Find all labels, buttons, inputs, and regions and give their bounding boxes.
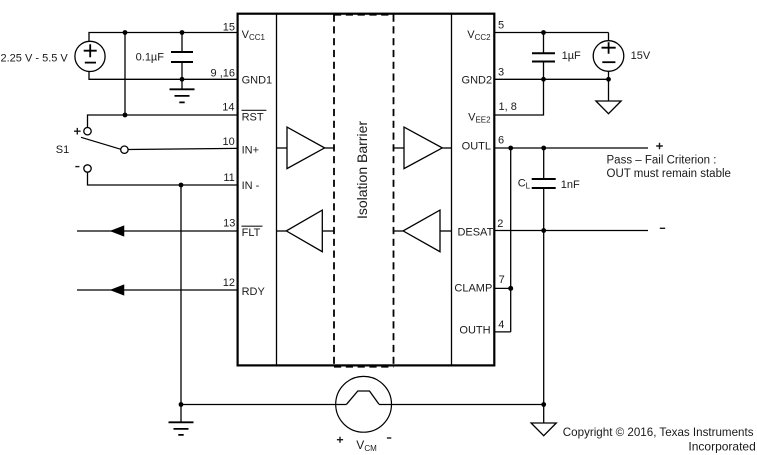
arrow RDY output [112,285,124,294]
label DESAT minus [660,227,665,229]
svg-text:Incorporated: Incorporated [688,439,755,453]
svg-text:3: 3 [498,67,504,79]
capacitor CL plates [532,179,556,188]
wire buffer U1D input [440,230,452,232]
label VCM minus [387,437,391,439]
buffer U1A input-side top triangle [287,127,325,169]
capacitor C2 1uF stems [543,33,545,80]
ground symbol bottom left [180,405,182,423]
ground triangle bottom right [531,405,556,436]
svg-text:OUTH: OUTH [459,325,490,337]
wire RST drop from VCC1 [124,33,126,116]
svg-text:CLAMP: CLAMP [454,283,492,295]
node bottom-left rail junction [179,402,184,407]
bottom rail wire right of VCM [379,404,544,406]
switch S1 bottom contact circle [84,165,91,172]
node GND2-15V junction [606,77,611,82]
svg-text:Copyright © 2016, Texas Instru: Copyright © 2016, Texas Instruments [563,426,754,439]
node CLAMP junction [508,286,513,291]
wire VCC1 pin 15 [89,33,237,43]
wire RST pin 14 [88,115,238,128]
svg-text:5: 5 [498,20,504,32]
wire buffer U1C output [277,230,287,232]
arrow FLT output [112,226,124,235]
svg-text:RST: RST [242,111,264,123]
wire buffer U1A input [277,147,288,149]
wire GND1 pin 9,16 [89,71,237,79]
svg-text:2.25 V - 5.5 V: 2.25 V - 5.5 V [1,53,69,65]
wire buffer U1C input [322,230,334,232]
svg-text:GND2: GND2 [462,75,493,87]
svg-text:VEE2: VEE2 [468,111,491,124]
wire buffer U1A output [325,147,334,149]
isolation barrier right dashed line [393,15,395,365]
node OUTL riser junction [508,146,513,151]
wire IN- drop to bottom rail [180,185,182,405]
node RST junction [123,113,128,118]
svg-text:OUT must remain stable: OUT must remain stable [607,168,731,180]
capacitor CL stems riser [543,148,545,405]
node VCC1-C1 junction [180,30,185,35]
node DESAT-CL junction [541,228,546,233]
node IN- junction [179,183,184,188]
source V1 plus sign [84,44,97,57]
node VCC1-RST junction [123,30,128,35]
source VCM circle [336,376,392,432]
wire OUTH pin 4 [495,331,511,333]
svg-text:FLT: FLT [242,227,261,239]
svg-text:Pass – Fail Criterion :: Pass – Fail Criterion : [607,155,717,167]
isolation barrier dashed bottom edge [334,366,394,368]
svg-text:VCM: VCM [356,438,377,453]
source V2 15V circle [593,41,624,72]
wire IN+ pin 10 [128,148,237,149]
svg-text:VCC2: VCC2 [467,29,491,42]
svg-text:2: 2 [497,218,503,230]
source VCM trapezoid waveform [347,391,380,404]
switch S1 top contact circle [84,128,91,135]
IC right inner pin-column line [451,14,453,366]
source V1 2.25-5.5V circle [75,41,105,71]
wire buffer U1B input [394,147,405,149]
svg-text:RDY: RDY [242,286,266,298]
svg-text:10: 10 [223,136,235,148]
ground GND1 symbol [181,79,183,89]
svg-text:S1: S1 [56,144,69,156]
svg-text:VCC1: VCC1 [242,29,266,42]
source V2 top stem [608,33,610,41]
svg-text:0.1µF: 0.1µF [136,51,165,63]
svg-text:1nF: 1nF [561,179,580,191]
capacitor C1 0.1uF plates [171,52,193,62]
svg-text:1µF: 1µF [562,50,581,62]
node VCC2-C2 junction [541,30,546,35]
svg-text:6: 6 [498,135,504,147]
wire FLT pin 13 [77,230,237,232]
wire buffer U1B output [442,147,451,149]
wire IN- pin 11 [88,172,238,185]
source V2 plus sign [602,42,616,54]
buffer U1D reverse lower-right triangle [403,210,440,252]
switch S1 arm [81,137,121,149]
svg-text:DESAT: DESAT [457,227,493,239]
svg-text:11: 11 [223,172,234,184]
svg-text:9 ,16: 9 ,16 [211,67,235,79]
bottom rail wire [181,404,347,406]
wire CLAMP pin 7 [495,287,511,289]
wire OUTL pin 6 [495,147,649,149]
node OUTL-CL junction [541,146,546,151]
svg-text:GND1: GND1 [242,75,273,87]
svg-text:CL: CL [518,177,531,190]
isolation barrier dashed top edge [334,14,394,16]
capacitor C1 0.1uF stems [181,33,183,80]
capacitor C2 1uF plates [532,53,555,61]
svg-text:OUTL: OUTL [462,141,491,153]
svg-text:IN -: IN - [242,180,260,192]
svg-text:Isolation Barrier: Isolation Barrier [354,121,370,219]
switch S1 pole circle [121,146,128,153]
buffer U1C reverse lower-left triangle [286,210,322,252]
svg-text:4: 4 [498,319,504,331]
svg-text:14: 14 [222,102,234,114]
wire OUTH-CLAMP-OUTL riser [510,148,512,332]
svg-text:15: 15 [223,21,235,33]
IC left inner pin-column line [276,14,278,366]
node GND1-C1 junction [180,77,185,82]
wire VCC2 pin 5 [495,32,609,34]
svg-text:12: 12 [223,277,235,289]
label VCM plus [337,437,343,443]
label switch plus [74,128,81,135]
source V1 minus bar [85,62,96,64]
svg-text:IN+: IN+ [242,145,259,157]
ground triangle under 15V [596,79,621,113]
isolation barrier left dashed line [333,15,335,365]
wire RDY pin 12 [77,289,237,291]
source V2 bottom stem [608,71,610,79]
wire GND2 pin 3 [495,78,609,80]
wire DESAT pin 2 [495,230,649,232]
label OUTL plus [656,143,663,150]
label switch minus [75,166,79,168]
svg-text:13: 13 [223,218,235,230]
svg-text:7: 7 [499,274,505,286]
svg-text:15V: 15V [631,50,651,62]
node bottom-right rail junction [541,402,546,407]
wire buffer U1D output [394,230,404,232]
source V2 minus bar [602,61,615,63]
wire VEE2 pin 1,8 [495,79,544,115]
buffer U1B output-side top triangle [404,127,442,169]
node GND2-C2 junction [541,77,546,82]
svg-text:1, 8: 1, 8 [499,101,517,113]
IC U1 outer body [238,14,495,366]
